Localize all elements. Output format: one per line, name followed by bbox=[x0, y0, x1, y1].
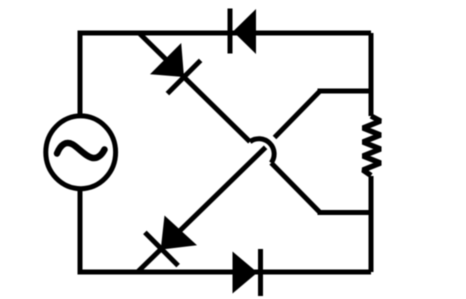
diode D2 cathode bar (bottom) bbox=[258, 249, 263, 296]
AC source V1 circle bbox=[46, 116, 116, 189]
wire right lower bbox=[369, 176, 374, 272]
diode D4 triangle (lower diagonal, pointing down-left) bbox=[161, 216, 197, 250]
wire hop (crossover arc) bbox=[250, 139, 274, 163]
wire left lower bbox=[78, 188, 83, 275]
resistor R1 (load) bbox=[363, 116, 381, 176]
diode D4 cathode bar (lower diagonal) bbox=[145, 232, 178, 265]
wire bottom bbox=[80, 270, 371, 275]
wire diagonal ascending upper segment (hop gap to corner) bbox=[275, 91, 321, 138]
wire horizontal to right rail (node D) bbox=[318, 89, 372, 94]
AC source V1 sine wave bbox=[57, 143, 105, 158]
diode D3 cathode bar (upper diagonal) bbox=[167, 60, 200, 93]
wire left upper bbox=[78, 31, 83, 118]
wire diagonal ascending lower segment (bottom wire to hop gap) bbox=[138, 147, 266, 271]
diode D1 triangle (top, pointing left) bbox=[233, 9, 256, 54]
diode D1 cathode bar (top) bbox=[228, 9, 233, 54]
diode D3 triangle (upper diagonal, pointing down-right) bbox=[150, 43, 184, 77]
wire top (node A to node B) bbox=[80, 31, 371, 36]
wire diagonal descending upper segment (top wire to hop) bbox=[139, 33, 250, 142]
wire horizontal to right rail (node C) bbox=[318, 210, 372, 215]
wire right upper bbox=[369, 33, 374, 116]
diode D2 triangle (bottom, pointing right) bbox=[233, 252, 258, 294]
wire diagonal descending lower segment (hop to corner) bbox=[271, 163, 320, 213]
